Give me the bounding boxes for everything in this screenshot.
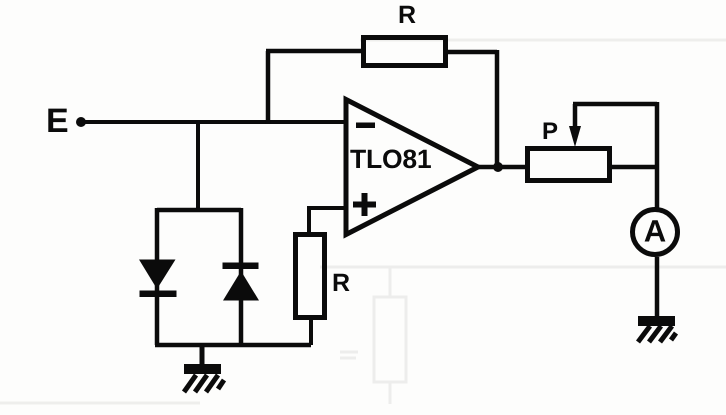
wire E input line [81,120,347,124]
resistor R1 feedback box [364,38,446,66]
wire P right terminal to node [610,165,659,170]
potentiometer wiper arrow [569,104,581,147]
wire ammeter to ground [655,257,660,318]
op-amp value label TLO81 [350,150,431,169]
wire feedback top left [266,49,363,54]
wire diode network bottom rail [155,343,311,348]
wire node down to ammeter [655,167,660,210]
wire op-amp plus input [309,206,347,210]
wire diode network top bar [157,208,241,213]
wire left diode branch [155,208,160,345]
diode D1 (cathode down) [139,260,177,298]
wire feedback left riser [266,51,271,124]
wire op-amp output [476,165,529,170]
diode D2 (cathode up) [223,263,260,301]
wire feedback top right [448,50,497,55]
wire riser plus input to R2 [307,206,311,234]
label R of R2 [334,274,350,291]
wire R2 bottom to rail [309,318,313,345]
potentiometer P box [528,149,610,181]
wire right diode branch [239,208,244,345]
node E input terminal [76,117,86,127]
ground symbol under diode network [184,364,224,392]
ammeter A1 letter [645,220,666,241]
op-amp plus pin label [353,193,376,216]
label E [48,109,67,132]
junction output node dot [493,162,503,172]
wire feedback right riser [495,50,500,167]
wire riser from input line down to diode network [196,122,200,212]
wire ground stub under diodes [200,345,205,366]
wire wiper loop top [573,102,657,107]
ground symbol under ammeter [638,316,676,342]
resistor R2 box (vertical) [296,235,325,318]
op-amp minus pin label [356,123,375,129]
label R of R1 [400,6,416,23]
label P [544,123,558,140]
ammeter A1 circle [633,210,678,255]
wire wiper loop right riser [655,102,660,167]
op-amp U1 body [346,100,478,235]
